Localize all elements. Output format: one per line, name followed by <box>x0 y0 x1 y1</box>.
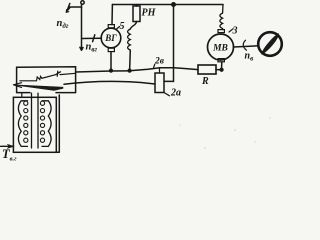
n_vg branch (shaft to exciter) <box>82 35 102 42</box>
vertical bus to line1 and 2a <box>164 5 174 82</box>
regulator RN box <box>133 6 140 22</box>
fan blade <box>262 34 279 54</box>
shaft (diesel-generator) vertical <box>80 4 83 50</box>
2v label tick <box>154 64 155 67</box>
line1 (lower bus) <box>76 68 198 72</box>
wire R to MV bottom <box>216 62 222 70</box>
RN top stub <box>136 5 138 7</box>
winding scallop left <box>18 101 27 147</box>
winding turns column 1 <box>24 101 28 142</box>
svg-text:R: R <box>201 76 209 87</box>
coil 5 (exciter field) <box>128 29 131 50</box>
svg-text:ВГ: ВГ <box>104 33 117 43</box>
stub left <box>21 93 23 97</box>
exciter VG circle <box>101 28 121 48</box>
winding box <box>13 97 56 152</box>
junction blob VG wire <box>110 69 113 72</box>
VG bottom brush <box>108 48 114 51</box>
winding box outer right step <box>56 95 59 152</box>
switch fixed contact <box>56 71 59 76</box>
RN to coil link <box>130 22 136 30</box>
svg-text:2в: 2в <box>154 57 165 67</box>
svg-text:5: 5 <box>120 21 125 32</box>
svg-text:РН: РН <box>142 8 157 19</box>
n_dg branch arrow <box>68 4 82 10</box>
MV field coil from bus <box>220 5 223 30</box>
line2 (box to 2a) <box>64 81 155 84</box>
switch wire to right <box>60 73 76 74</box>
2a label tick <box>164 93 170 96</box>
wire VG bottom to line1 <box>110 52 112 71</box>
core verticals into winding box <box>32 93 39 148</box>
switch blade <box>42 72 61 79</box>
switch box <box>17 67 76 93</box>
wire coil to line1 <box>129 50 132 71</box>
rotation arc n_v <box>243 40 246 50</box>
label 5 tick <box>117 27 120 30</box>
paper noise <box>179 117 271 149</box>
contact 2a rect <box>155 73 164 93</box>
winding turns column 2 <box>40 101 44 142</box>
needle arrow <box>14 85 64 91</box>
junction blob coil wire <box>128 69 131 72</box>
VG top brush <box>108 25 114 28</box>
svg-text:2а: 2а <box>170 88 181 99</box>
svg-text:МВ: МВ <box>212 43 228 53</box>
svg-text:3: 3 <box>232 26 238 37</box>
T_vg current arrow <box>1 145 10 147</box>
label 3 tick <box>229 29 233 32</box>
motor MV circle <box>208 34 234 60</box>
2a top stub <box>159 68 161 73</box>
resistor R <box>198 65 216 74</box>
MV bottom brush <box>218 59 224 62</box>
fan circle <box>258 32 282 56</box>
MV top brush <box>218 30 224 33</box>
fan shaft <box>234 46 259 47</box>
shaft top loop <box>81 1 84 4</box>
winding scallop right <box>42 101 51 147</box>
switch zigzag contact <box>20 76 42 80</box>
top bus <box>112 4 223 6</box>
junction dot on bus <box>172 3 176 7</box>
wire VG top to bus <box>111 5 113 25</box>
